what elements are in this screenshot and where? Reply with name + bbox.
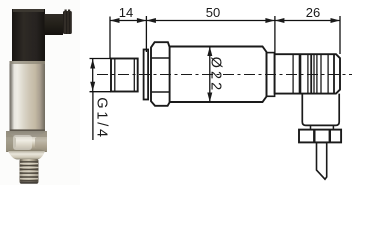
extension line 14 left — [109, 17, 111, 59]
connector rib 3 — [310, 54, 312, 93]
connector rib 8 — [333, 54, 335, 93]
technical drawing — [97, 42, 352, 179]
svg-text:Ø22: Ø22 — [207, 57, 223, 94]
thread diameter dimension line — [92, 59, 94, 91]
sealing washer — [144, 50, 149, 100]
thread chamfer line left — [114, 59, 116, 92]
photo hex bottom face — [8, 151, 45, 160]
arrowhead 14 left — [110, 18, 120, 23]
connector rib 5 — [316, 54, 318, 93]
dimensions — [90, 16, 341, 140]
connector rib 6 — [320, 54, 322, 93]
connector section divider — [292, 54, 294, 93]
connector rib 1 — [299, 54, 302, 93]
thread chamfer line right — [133, 59, 135, 92]
top dimension line — [110, 20, 340, 22]
gland neck left — [310, 125, 312, 129]
arrowhead 14 right — [137, 18, 147, 23]
photo connector gland nut — [63, 11, 72, 34]
photo connector gland arm — [45, 14, 64, 35]
thread dim extension top — [90, 58, 112, 60]
extension line 14/50 shared — [145, 16, 147, 52]
transmitter body Ø22 — [169, 47, 266, 103]
arrowhead 50 left — [146, 18, 156, 23]
centerline — [97, 74, 352, 76]
connector rib 2 — [307, 54, 309, 93]
gland nut facet right — [329, 130, 331, 143]
arrowhead 26 left — [275, 18, 285, 23]
thread stub outline — [111, 59, 138, 92]
diameter dimension line Ø22 — [209, 47, 211, 103]
gland neck right — [332, 125, 334, 129]
svg-text:26: 26 — [306, 5, 320, 20]
photo backdrop shade — [0, 0, 80, 185]
connector rib 4 — [313, 54, 315, 93]
photo steel cylinder body — [10, 61, 46, 131]
gland nut — [299, 130, 341, 143]
extension line 26 right — [339, 16, 341, 54]
arrowhead thread bottom — [90, 82, 95, 92]
arrowhead Ø22 top — [207, 47, 212, 57]
arrowhead 26 right — [331, 18, 341, 23]
arrowhead Ø22 bottom — [207, 93, 212, 103]
arrowhead thread top — [90, 59, 95, 69]
svg-text:14: 14 — [119, 5, 133, 20]
photo hex nut — [6, 131, 47, 152]
body end neck — [267, 53, 275, 97]
connector rib 7 — [327, 54, 329, 93]
svg-text:G1/4: G1/4 — [94, 97, 110, 140]
cable gland body — [302, 94, 339, 126]
hex facet line bottom — [151, 91, 170, 93]
photo connector black block — [12, 9, 45, 61]
photo threaded stub — [20, 159, 39, 184]
gland nut facet left — [313, 130, 315, 143]
hex nut outline — [151, 42, 170, 106]
arrowhead 50 right — [265, 18, 275, 23]
extension line 50/26 shared — [274, 16, 276, 54]
cable blade — [317, 142, 327, 179]
thread dim extension bottom — [90, 91, 112, 93]
svg-text:50: 50 — [206, 5, 220, 20]
hex facet line top — [151, 57, 170, 59]
connector housing — [275, 54, 340, 93]
G1/4 leader line — [92, 92, 94, 140]
